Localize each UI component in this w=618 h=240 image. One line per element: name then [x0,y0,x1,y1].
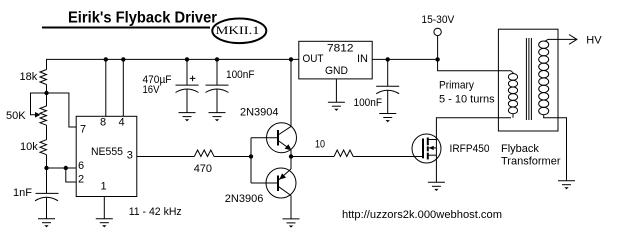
ground under C2 [179,113,196,122]
node A junction dot [44,91,48,95]
ground under Q2 [283,219,300,228]
svg-text:7812: 7812 [327,43,354,55]
wire: pot wiper branch [31,93,47,115]
svg-text:http://uzzors2k.000webhost.com: http://uzzors2k.000webhost.com [342,209,502,221]
ground under C3 [209,113,226,122]
svg-text:100nF: 100nF [226,69,255,81]
junction dot C4 [386,57,390,61]
transformer T1 box [498,29,558,131]
svg-text:3: 3 [127,150,133,162]
pot wiper arrowhead [35,112,41,118]
junction dot 15-30V node [435,57,439,61]
capacitor C4 100nF top plate [376,85,399,87]
wire: Q1 emitter to output node [290,150,292,157]
wire: secondary bottom to ground [544,115,567,181]
output node junction dot [289,154,293,158]
terminal 15-30V [434,28,441,35]
wire: pin 3 to 470 resistor [137,156,195,158]
HV arrowhead [569,35,577,45]
junction dot pin2 branch [64,166,68,170]
primary coil L1 [508,71,517,118]
wire: 470 to base node [214,156,251,158]
capacitor C2 470uF lead [186,59,188,85]
wire: base to Q2 [251,182,278,184]
svg-text:MKII.1: MKII.1 [216,23,260,37]
ground under C4 [379,114,396,123]
wire: base rail [250,138,252,183]
wire: node B to pin 6 [47,167,77,169]
svg-text:2N3904: 2N3904 [240,107,279,119]
svg-text:1: 1 [101,180,107,192]
capacitor C4 100nF lead [387,59,389,86]
svg-text:50K: 50K [6,110,26,122]
potentiometer R2 50K [40,106,47,125]
wire: Q1 collector to rail [290,59,292,126]
junction dot C3 [215,57,219,61]
capacitor C2 470uF top plate [176,84,199,86]
wire: 10k to 1nF top plate [46,155,48,194]
version ellipse [212,19,266,44]
wire: pin 1 to ground [103,197,105,219]
resistor R4 470 [194,150,214,157]
ground under mosfet source [428,182,445,191]
wire: pin 8 to rail [105,59,107,116]
svg-text:OUT: OUT [303,53,324,65]
junction dot pin 4 [121,57,125,61]
wire: pin 4 to rail [122,59,124,116]
svg-text:16V: 16V [143,84,161,96]
svg-text:15-30V: 15-30V [421,14,455,26]
capacitor C4 100nF curved plate [376,90,399,94]
capacitor C1 1nF top plate [36,192,59,194]
svg-text:8: 8 [100,117,106,129]
svg-text:5 - 10 turns: 5 - 10 turns [439,94,495,106]
resistor R1 18k [40,70,47,85]
wire: mosfet drain up and to primary bottom [436,118,511,183]
svg-text:18k: 18k [20,71,38,83]
svg-text:HV: HV [586,35,602,47]
wire: 15-30V node to primary top [438,59,511,70]
wire: terminal to rail [437,36,439,60]
wire: C2 to ground [186,89,188,113]
wire: +12V rail from 18k top corner to 7812 OUT [47,59,299,69]
base node junction dot [249,154,253,158]
wire: Q2 collector to ground [290,196,292,219]
svg-text:11 - 42 kHz: 11 - 42 kHz [129,206,182,218]
svg-text:Primary: Primary [439,80,474,92]
svg-text:10: 10 [315,138,325,150]
wire: C4 to ground [387,90,389,113]
svg-text:Eirik's Flyback Driver: Eirik's Flyback Driver [68,10,217,27]
transistor Q2 2N3906 [266,168,296,198]
title underline [42,27,210,29]
svg-text:4: 4 [119,117,125,129]
svg-text:470: 470 [194,163,212,175]
transistor Q1 2N3904 [267,123,297,153]
ground under 7812 [328,102,345,111]
resistor R3 10k [40,140,47,155]
op-amp U1 NE555 box [76,116,137,196]
capacitor C2 470uF curved plate [176,89,199,93]
svg-text:IN: IN [357,53,368,65]
junction dot pin 8 [104,57,108,61]
transformer core [526,38,531,120]
ground under secondary [558,181,575,190]
wire: output node to 10 resistor [291,156,334,158]
svg-text:NE555: NE555 [91,146,123,158]
svg-text:GND: GND [325,65,348,77]
wire: 18k to node A [46,85,48,107]
svg-text:2N3906: 2N3906 [225,193,264,205]
svg-text:Transformer: Transformer [501,156,561,168]
transistor Q3 IRFP450 mosfet [412,134,441,163]
wire: 1nF to ground [46,197,48,218]
svg-text:Flyback: Flyback [501,143,539,155]
wire: 10 to gate [353,156,423,158]
junction dot collector rail [289,57,293,61]
capacitor C1 1nF curved plate [35,197,58,201]
wire: node A to pin 7 [47,93,77,127]
regulator U2 7812 box [299,41,372,79]
capacitor C3 100nF top plate [206,84,229,86]
svg-text:IRFP450: IRFP450 [450,143,490,155]
svg-text:100nF: 100nF [354,97,383,109]
node B junction dot [44,166,48,170]
wire: secondary top to HV arrow [545,39,577,41]
junction dot C2 [185,57,189,61]
wire: branch to pin 2 [66,168,76,182]
svg-text:2: 2 [78,173,84,185]
wire: 7812 GND to ground [335,79,337,102]
wire: Q2 emitter to output node [290,157,292,170]
capacitor C3 100nF curved plate [206,89,229,93]
wire: 7812 IN to 15-30V node [372,58,437,60]
ground under pin 1 [96,219,113,228]
C2 plus sign [190,76,196,82]
resistor R5 10 [334,150,353,157]
secondary coil L2 [539,41,549,115]
wire: C3 to ground [216,89,218,113]
svg-text:10k: 10k [20,141,38,153]
svg-text:6: 6 [78,160,84,172]
ground under 1nF [38,219,55,228]
svg-text:7: 7 [80,123,86,135]
svg-text:1nF: 1nF [13,187,32,199]
wire: 50K to 10k [46,125,48,140]
wire: base to Q1 [251,137,278,139]
capacitor C3 100nF lead [216,59,218,85]
